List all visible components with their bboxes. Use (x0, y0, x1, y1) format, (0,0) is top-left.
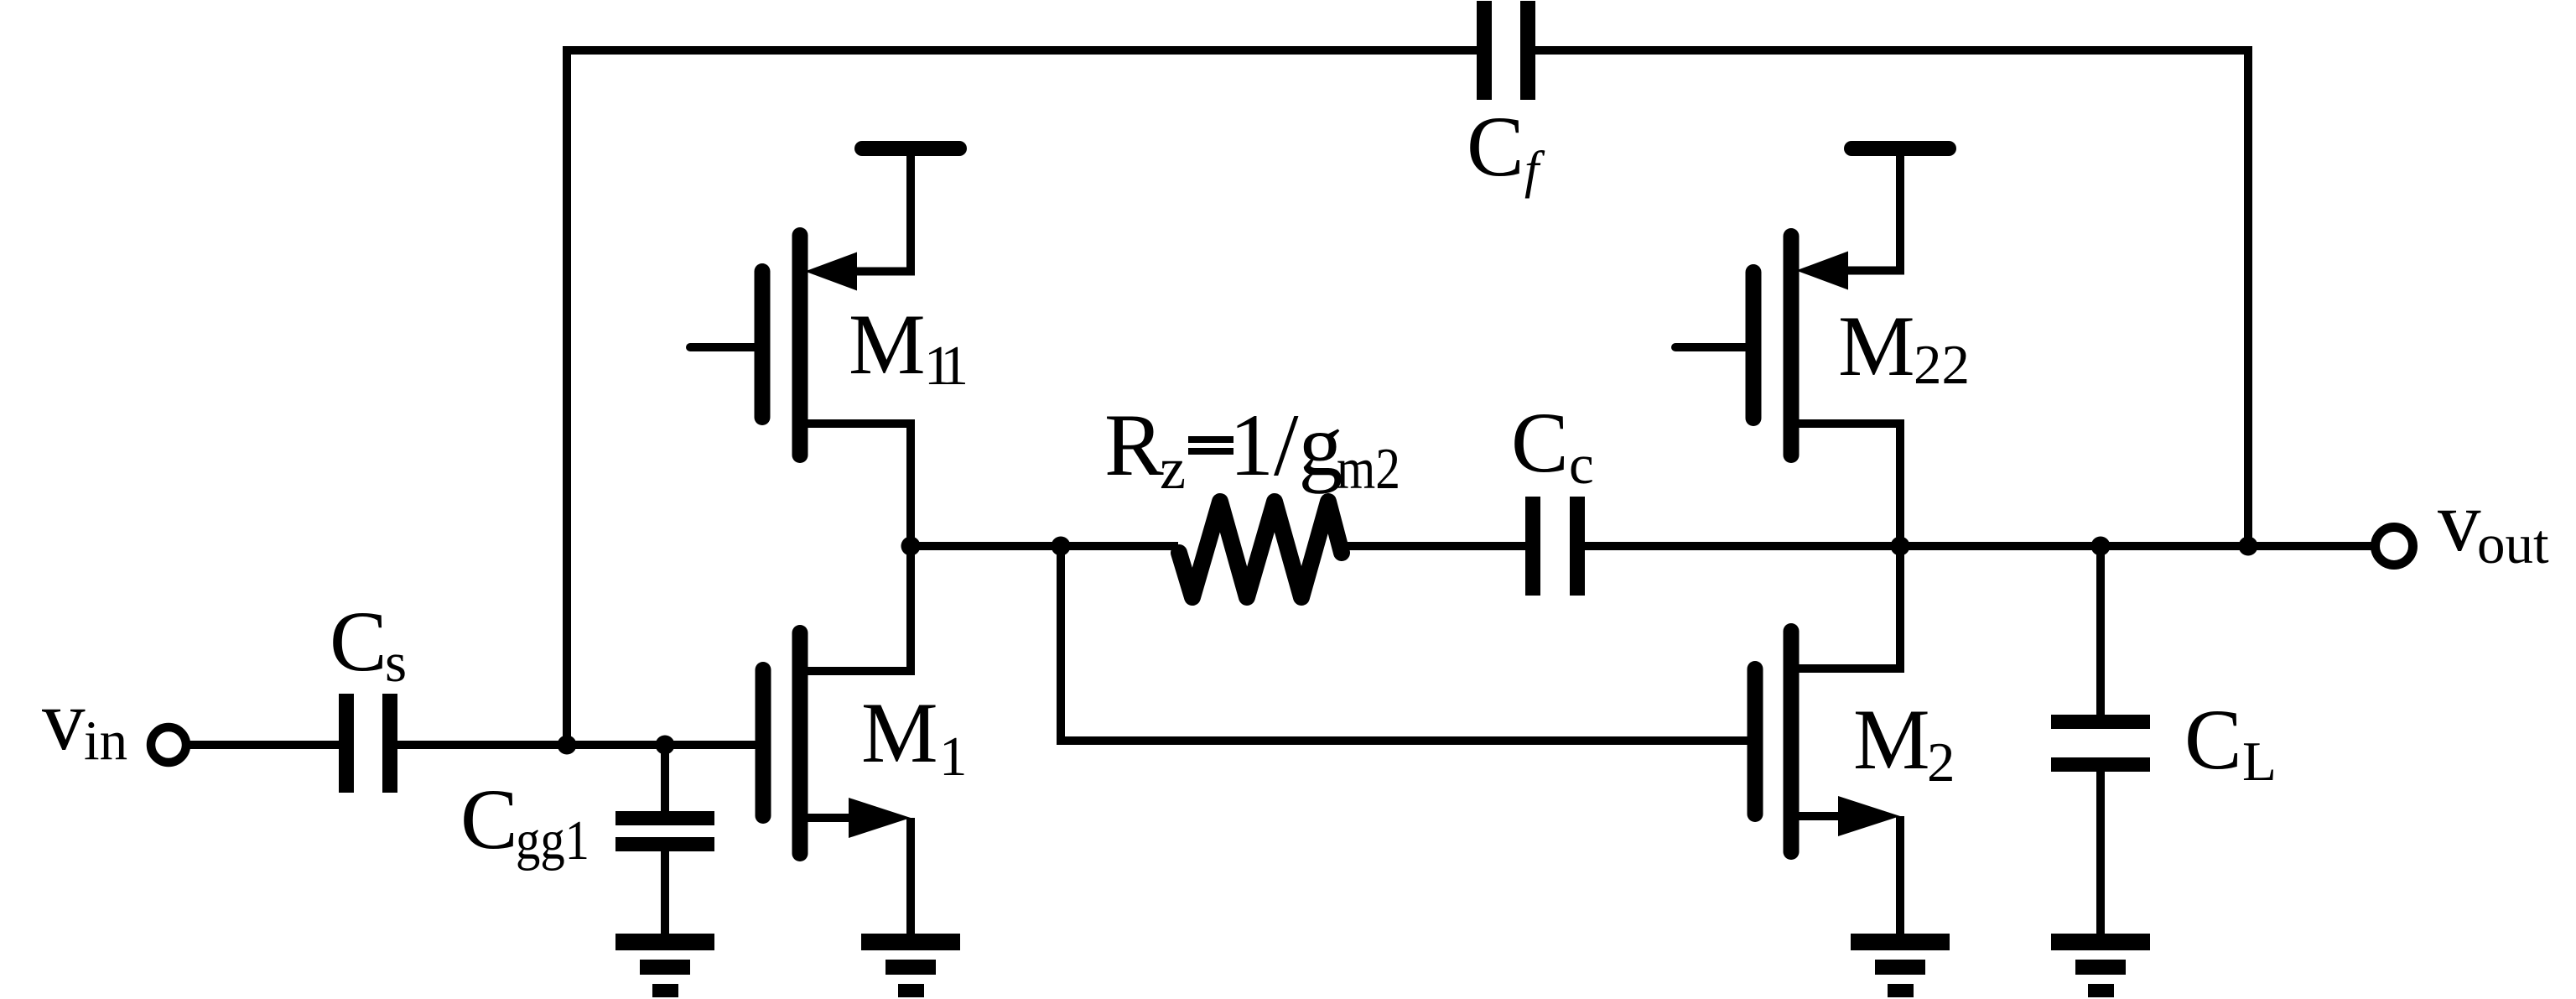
wire vin to Cs (186, 741, 339, 749)
capacitor Cs (339, 694, 397, 793)
svg-text:1/g: 1/g (1229, 396, 1343, 494)
svg-text:22: 22 (1914, 334, 1970, 396)
wire node D down and across to M2 gate (1061, 546, 1748, 741)
node B (gate node dot) (656, 736, 675, 755)
svg-text:c: c (1569, 434, 1594, 496)
terminal vout (2376, 528, 2413, 565)
svg-text:C: C (2184, 692, 2242, 788)
power rail VDD (M22) (1851, 141, 1949, 156)
capacitor Cc (1525, 497, 1585, 596)
svg-text:m2: m2 (1337, 437, 1400, 502)
svg-text:1: 1 (939, 726, 968, 788)
wire feedback top right: Cf across and down to output line (1535, 50, 2248, 546)
wire node C to resistor (911, 542, 1178, 550)
svg-text:M: M (849, 297, 926, 393)
wire resistor to Cc (1343, 542, 1525, 550)
capacitor CL (2051, 546, 2150, 934)
transistor M2 (1755, 546, 1900, 934)
capacitor Cf (1477, 1, 1535, 100)
node E (M2 drain junction dot) (1891, 537, 1910, 556)
svg-text:M: M (1853, 692, 1930, 788)
node A (input node dot) (558, 736, 577, 755)
svg-text:C: C (460, 772, 518, 867)
svg-text:s: s (385, 632, 407, 694)
node C (stage-1 output dot) (901, 537, 921, 556)
ground (M2 source) (1851, 934, 1950, 997)
ground (Cgg1) (615, 934, 714, 997)
svg-text:in: in (84, 710, 127, 772)
svg-text:2: 2 (1927, 731, 1955, 793)
svg-text:v: v (42, 673, 86, 768)
transistor M22 (1675, 156, 1900, 546)
transistor M11 (690, 156, 911, 546)
svg-text:gg1: gg1 (516, 809, 589, 872)
capacitor Cgg1 (615, 749, 714, 934)
wire Cs to M1 gate (397, 741, 759, 749)
wire feedback top left: input node up and across to Cf (567, 50, 1477, 745)
svg-text:C: C (1467, 99, 1524, 195)
svg-text:C: C (1511, 395, 1569, 491)
ground (CL) (2051, 934, 2150, 997)
svg-text:C: C (330, 594, 387, 689)
node F (CL junction dot) (2091, 537, 2111, 556)
svg-text:M: M (861, 685, 938, 781)
terminal vin (151, 727, 186, 762)
svg-text:R: R (1104, 396, 1164, 494)
transistor M1 (763, 546, 911, 934)
wire Cc to vout (1585, 542, 2376, 550)
node D (M2 gate tap dot) (1052, 537, 1071, 556)
svg-text:z: z (1160, 437, 1186, 502)
svg-text:v: v (2438, 474, 2481, 570)
svg-text:out: out (2477, 513, 2549, 575)
svg-text:M: M (1838, 299, 1915, 394)
node G (feedback junction dot) (2239, 537, 2258, 556)
svg-text:L: L (2242, 731, 2277, 793)
resistor Rz (1179, 502, 1342, 597)
svg-text:11: 11 (924, 335, 969, 397)
power rail VDD (M11) (862, 141, 959, 156)
ground (M1 source) (861, 934, 960, 997)
